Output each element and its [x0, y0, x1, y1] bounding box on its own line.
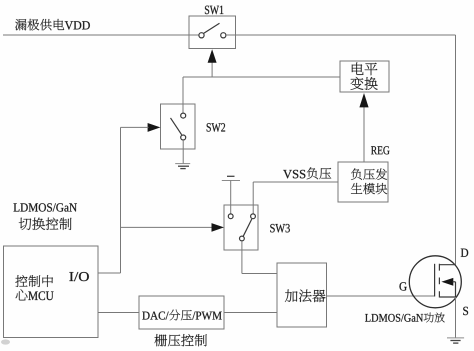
wire DAC to adder input [224, 312, 277, 314]
wire REG from 负压发生模块 up to arrow [363, 106, 365, 162]
switch SW2 box [161, 104, 196, 149]
block 电平变换 (level shift) box [340, 61, 389, 92]
label 栅压控制 (gate voltage control) caption [155, 334, 207, 346]
label 切换控制 control caption [19, 218, 72, 230]
switch SW3 left contact [228, 214, 233, 219]
wire SW2 bottom to ground [182, 140, 184, 164]
label DAC/分压/PWM text [142, 310, 221, 321]
arrow control into SW3 [212, 223, 225, 232]
label D drain pin [461, 249, 468, 257]
wire control rail below SW1 [183, 76, 340, 78]
label LDMOS/GaN control caption [14, 203, 77, 211]
switch SW2 top contact [181, 113, 186, 118]
switch SW1 left contact [199, 33, 204, 38]
switch SW1 box [189, 16, 236, 49]
wire source down to ground [455, 297, 457, 338]
label 控制中心MCU text [15, 275, 53, 300]
ground below source [447, 338, 464, 343]
wire control trunk vertical [120, 127, 122, 273]
transistor Q1 channel dashed bar [438, 264, 440, 298]
label SW1 [205, 6, 223, 15]
switch SW1 lever [204, 23, 220, 33]
label LDMOS/GaN功放 amplifier caption [365, 313, 445, 323]
label SW3 [270, 224, 290, 233]
switch SW1 right contact [221, 33, 226, 38]
switch SW3 box [224, 205, 258, 250]
switch SW3 bottom contact [240, 236, 245, 241]
transistor Q1 body arrow [441, 278, 455, 286]
block 负压发生模块 (negative voltage generator) box [338, 162, 388, 202]
label G gate pin [399, 282, 406, 290]
label 负压发生模块 text [351, 168, 387, 194]
wire I/O output from MCU to trunk [98, 272, 121, 274]
label SW2 [207, 123, 225, 132]
label I/O pin [69, 272, 88, 281]
wire MCU to DAC box [98, 312, 139, 314]
wire body arrow to source stub [455, 282, 457, 297]
block 控制中心MCU box [4, 246, 99, 338]
wire drain vertical down right side [455, 35, 457, 265]
switch SW2 bottom contact [181, 135, 186, 140]
label net 漏极供电VDD (drain supply VDD) [15, 19, 90, 30]
label VSS负压 net name [283, 167, 331, 179]
switch SW3 right contact [251, 214, 256, 219]
wire negative symbol to SW3 left contact [230, 181, 232, 215]
label REG net [371, 146, 389, 154]
switch SW3 lever [243, 219, 252, 236]
wire VDD rail from left edge to SW1 left contact [3, 34, 199, 36]
arrow control into SW2 [148, 123, 161, 132]
wire control branch to SW2 [121, 126, 149, 128]
negative supply symbol above SW3 [222, 176, 240, 180]
transistor Q1 gate bar [434, 264, 436, 297]
switch SW2 lever [171, 118, 182, 135]
wire VSS负压 from 负压发生模块 to SW3 right contact [253, 182, 338, 214]
label 加法器 text [285, 290, 326, 303]
wire SW3 bottom contact to adder input [242, 241, 277, 274]
wire adder output to transistor gate [327, 295, 435, 297]
transistor Q1 LDMOS/GaN body circle [409, 256, 461, 308]
arrow into SW1 bottom [208, 49, 217, 77]
wire SW1 output to drain line corner [226, 34, 456, 36]
wire control branch to SW3 [121, 226, 213, 228]
transistor Q1 source stub [439, 296, 455, 298]
block DAC/分压/PWM box [139, 296, 224, 329]
scan smudge artifact below MCU corner [1, 339, 10, 344]
arrow REG into 电平变换 bottom [359, 93, 368, 107]
label 电平变换 text [350, 62, 377, 89]
label S source pin [463, 307, 468, 315]
block 加法器 (adder) box [277, 263, 327, 327]
wire rail down to SW2 top contact [182, 77, 184, 113]
transistor Q1 drain stub [439, 264, 455, 266]
ground below SW2 [175, 164, 190, 169]
